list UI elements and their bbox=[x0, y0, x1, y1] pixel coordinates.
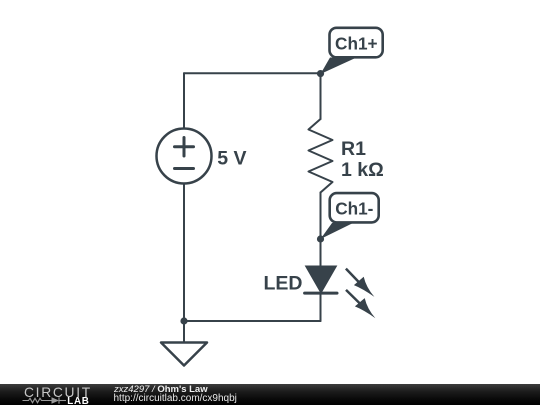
wire LED to bottom bbox=[320, 293, 322, 321]
CircuitLab logo bbox=[0, 381, 100, 405]
svg-text:1 kΩ: 1 kΩ bbox=[341, 159, 384, 181]
svg-text:LAB: LAB bbox=[67, 396, 89, 405]
wire right vertical (top node to resistor) bbox=[320, 73, 322, 119]
LED light arrow 1 bbox=[346, 269, 375, 297]
LED light arrow 2 bbox=[346, 290, 375, 318]
wire Ch1- node to LED bbox=[320, 239, 322, 266]
wire resistor bottom to Ch1- node bbox=[320, 193, 322, 240]
voltage source V1 bbox=[157, 129, 212, 184]
wire left vertical (source top) bbox=[183, 73, 185, 128]
node A (top, Ch1+) bbox=[317, 70, 324, 77]
svg-text:Ch1+: Ch1+ bbox=[335, 34, 378, 54]
wire left vertical (source bottom) bbox=[183, 184, 185, 322]
LED D1 bbox=[305, 266, 337, 293]
svg-text:R1: R1 bbox=[341, 138, 366, 160]
resistor R1 bbox=[309, 119, 333, 193]
probe label Ch1- bbox=[321, 193, 379, 239]
footer url text bbox=[114, 393, 237, 404]
node C (bottom, ground) bbox=[180, 317, 187, 324]
probe label Ch1+ bbox=[321, 28, 383, 74]
node B (Ch1-) bbox=[317, 235, 324, 242]
ground bbox=[161, 321, 207, 366]
svg-text:LED: LED bbox=[264, 273, 303, 295]
svg-text:Ch1-: Ch1- bbox=[335, 198, 373, 218]
footer title text bbox=[114, 384, 208, 395]
wire top horizontal bbox=[184, 72, 321, 74]
footer bar bbox=[0, 384, 540, 405]
wire bottom horizontal bbox=[184, 320, 321, 322]
svg-text:5 V: 5 V bbox=[217, 148, 246, 170]
